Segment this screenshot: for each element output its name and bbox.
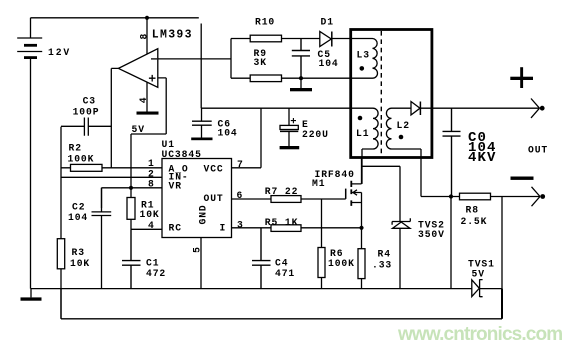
wire top 12V rail [31, 18, 202, 108]
resistor R4 [358, 228, 365, 289]
svg-text:OUT: OUT [204, 193, 224, 204]
node L3 phase dot [360, 66, 365, 71]
resistor R9 [231, 75, 373, 82]
wire pin4 row [131, 228, 162, 230]
wire output plus [420, 107, 539, 109]
battery 12V [17, 18, 42, 289]
capacitor C4 [252, 228, 271, 289]
node VREF junction [129, 186, 133, 190]
node arrow minus terminal [532, 187, 541, 206]
transformer core dashed [380, 31, 382, 157]
svg-text:6: 6 [237, 190, 244, 201]
svg-text:5: 5 [192, 246, 203, 253]
diode D2 output [411, 102, 420, 116]
wire pin7 to rail [232, 108, 262, 168]
svg-text:.33: .33 [372, 259, 392, 270]
wire bus2 [61, 197, 502, 319]
capacitor C6 [191, 108, 212, 140]
svg-text:2.5K: 2.5K [461, 216, 488, 227]
svg-text:L1: L1 [356, 128, 369, 139]
svg-text:100K: 100K [328, 258, 355, 269]
svg-text:10K: 10K [70, 258, 90, 269]
resistor R3 [57, 239, 64, 319]
wire op-amp pin4 to ground [146, 83, 148, 112]
svg-text:R7 22: R7 22 [265, 186, 299, 197]
svg-text:4: 4 [138, 96, 149, 103]
resistor R2 [61, 164, 162, 171]
svg-text:5V: 5V [132, 124, 145, 135]
svg-text:VR: VR [169, 181, 182, 192]
capacitor C2 [92, 188, 112, 289]
capacitor C0 [443, 108, 461, 196]
inductor L1 winding [362, 108, 378, 184]
svg-text:C1: C1 [146, 258, 159, 269]
wire op-amp minus output to R9 R10 bar [158, 58, 231, 60]
svg-text:LM393: LM393 [152, 29, 193, 42]
resistor R10 [231, 35, 320, 42]
svg-text:www.cntronics.com: www.cntronics.com [397, 324, 562, 345]
node L1 phase dot [358, 116, 363, 121]
svg-text:12V: 12V [48, 47, 71, 58]
svg-text:4KV: 4KV [468, 150, 497, 166]
wire op-amp output vertical [111, 68, 118, 167]
resistor R7 [271, 196, 301, 203]
svg-text:4: 4 [148, 220, 155, 231]
svg-text:RC: RC [169, 223, 182, 234]
svg-text:R2: R2 [69, 142, 82, 153]
inductor L2 winding [386, 108, 421, 196]
capacitor C1 [122, 229, 141, 288]
svg-text:5V: 5V [472, 269, 485, 280]
svg-text:R10: R10 [255, 17, 275, 28]
minus symbol output [511, 177, 534, 180]
wire pin3 row [232, 227, 362, 229]
wire pin2 row [61, 176, 162, 178]
node minus rail junction [449, 194, 453, 198]
op-amp U2 LM393 triangle [118, 49, 157, 88]
svg-text:OUT: OUT [528, 145, 548, 156]
svg-text:10K: 10K [140, 209, 160, 220]
diode TVS1 zener [472, 279, 483, 297]
wire bus1 ground [31, 288, 503, 290]
ground main [21, 289, 42, 301]
node junction top rail [145, 16, 149, 20]
svg-text:R3: R3 [72, 247, 85, 258]
svg-text:100P: 100P [73, 107, 100, 118]
svg-text:L3: L3 [357, 50, 370, 61]
ground op-amp [137, 112, 159, 115]
wire drain to TVS2 [362, 166, 401, 221]
svg-text:220U: 220U [302, 129, 329, 140]
inductor L3 winding [373, 39, 378, 79]
wire op-amp plus to 5V net [131, 78, 166, 188]
svg-text:C4: C4 [275, 258, 288, 269]
svg-text:VCC: VCC [204, 163, 224, 174]
svg-text:C2: C2 [72, 202, 85, 213]
wire op-amp pin8 [146, 18, 148, 54]
plus symbol output [510, 67, 533, 88]
transformer T1 box [351, 30, 432, 158]
svg-text:C3: C3 [83, 95, 96, 106]
svg-text:I: I [220, 223, 227, 234]
node mosfet source junction [359, 226, 363, 230]
svg-text:R8: R8 [466, 204, 479, 215]
capacitor C3 [61, 118, 111, 136]
op-amp plus input mark [149, 75, 156, 82]
node C5 R9 junction [299, 76, 303, 80]
svg-text:D1: D1 [321, 16, 334, 27]
resistor R5 [271, 225, 301, 232]
wire left node vertical [60, 127, 62, 239]
wire 12V mid rail [201, 107, 373, 109]
wire pin5 GND [200, 238, 202, 289]
node arrow plus terminal [531, 99, 540, 118]
svg-text:472: 472 [146, 268, 166, 279]
svg-text:8: 8 [148, 179, 155, 190]
diode D1 [320, 32, 373, 47]
ground C5 [290, 78, 312, 91]
svg-text:1: 1 [148, 158, 155, 169]
wire pin6 row [232, 198, 346, 200]
svg-text:3: 3 [237, 219, 244, 230]
wire R9 R10 left bar [230, 39, 232, 79]
op-amp minus input mark [151, 58, 157, 60]
svg-text:M1: M1 [312, 178, 325, 189]
svg-text:471: 471 [275, 268, 295, 279]
svg-text:L2: L2 [397, 120, 410, 131]
transistor Q1 M1 IRF840 mosfet [346, 158, 362, 228]
svg-text:104: 104 [68, 212, 88, 223]
wire pin8 row [102, 188, 163, 208]
node L2 phase dot [399, 135, 404, 140]
svg-text:R5 1K: R5 1K [265, 217, 299, 228]
capacitor C5 [292, 39, 310, 79]
resistor R8 [460, 193, 491, 200]
svg-text:7: 7 [237, 159, 244, 170]
svg-text:GND: GND [198, 204, 209, 224]
svg-text:3K: 3K [254, 57, 267, 68]
svg-text:R4: R4 [378, 248, 391, 259]
svg-text:UC3845: UC3845 [162, 149, 202, 160]
capacitor E 220U electrolytic [280, 108, 300, 149]
wire output minus [421, 196, 540, 198]
svg-text:8: 8 [139, 33, 150, 40]
svg-text:104: 104 [218, 127, 238, 138]
diode TVS2 zener [392, 218, 410, 288]
svg-text:350V: 350V [418, 229, 445, 240]
svg-text:104: 104 [319, 58, 339, 69]
resistor R6 [318, 199, 325, 289]
resistor R1 [127, 188, 135, 230]
IC U1 UC3845 box [162, 159, 232, 238]
wire minus rail to bus [450, 197, 452, 289]
svg-text:100K: 100K [68, 154, 95, 165]
